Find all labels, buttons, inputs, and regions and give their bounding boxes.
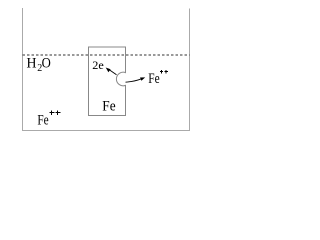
svg-text:H: H	[27, 56, 37, 72]
svg-text:O: O	[42, 56, 51, 72]
svg-text:Fe: Fe	[102, 99, 116, 115]
svg-text:Fe: Fe	[148, 71, 160, 87]
svg-text:2e: 2e	[92, 58, 104, 72]
svg-text:Fe: Fe	[37, 113, 49, 129]
